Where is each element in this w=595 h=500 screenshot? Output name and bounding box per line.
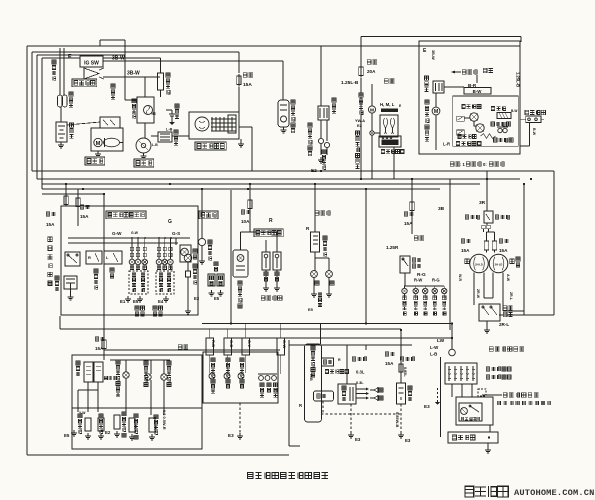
radiator fan motor label [308,123,312,127]
wire alternator charge feed [238,52,240,73]
wire AC switch drop [529,122,531,146]
alternator box [189,112,239,139]
hazard switch label [48,237,53,242]
svg-text:1.25L-B: 1.25L-B [516,72,521,87]
turn rails [68,237,190,239]
headlamp right [489,254,508,273]
reversing lamp ground [201,246,203,258]
relay ground [487,443,489,447]
svg-text:3B-W: 3B-W [127,71,140,77]
wire label box G-W [277,338,285,355]
svg-text:R: R [88,255,91,260]
air conditioner section box [419,41,520,154]
fuel solenoid ground [283,127,285,130]
AC control inner box [453,96,518,146]
wire blower drops [393,147,395,179]
wire label box R-B [206,338,214,355]
right turn lamp connectors [157,247,160,250]
logic levels note [450,162,454,166]
wire instruments rail [104,349,280,351]
starter motor box [91,128,123,151]
label 0.85L vertical [403,367,407,377]
wire radiator fan feeds [320,46,322,106]
left turn lamps [129,259,135,265]
clock label box [322,358,334,366]
wire mid rail 3 [42,188,440,190]
left turn indicator [238,373,244,379]
svg-text:2H-LD: 2H-LD [475,263,483,267]
wires headlamps to dimmer [473,272,475,305]
lighter label [400,357,404,361]
svg-text:2R-W: 2R-W [476,289,480,299]
accessory ground bus dashed [321,413,401,415]
fuse 15A turn hazard [46,212,50,216]
label small lamps [414,236,418,240]
wire coil to distributor [144,123,146,138]
wiper switch label [486,367,490,371]
condenser fan motor [432,107,440,115]
intermittent relay label box [448,432,498,443]
wire mid top rail [32,170,554,172]
wire blower feed vertical [360,37,362,66]
svg-text:1.25L-B: 1.25L-B [341,80,359,86]
label B-W ac switch [532,128,536,136]
AC switch box [526,116,541,122]
charge warning label [167,361,171,365]
oil warning label [144,361,148,365]
wire bottom frame [27,454,289,456]
svg-text:IG: IG [152,111,156,116]
brake lamp label [315,211,319,215]
svg-text:A-W: A-W [506,274,510,282]
door switch label [261,296,265,300]
svg-text:: 1: : 1 [460,162,466,167]
intermittent relay inner box [459,403,482,421]
right turn label [153,306,157,310]
relay inner label [461,417,464,420]
wire filter links [151,135,158,137]
svg-text:E2: E2 [311,168,317,173]
pressure switch label [491,122,495,126]
starter solenoid box [100,117,120,128]
wire 3B-W branch [103,76,158,78]
svg-text:R: R [269,218,273,224]
wire center main vertical bus [365,189,367,324]
blower switch box [379,136,401,147]
svg-text:B-W: B-W [511,109,517,113]
svg-text:E3: E3 [194,296,200,301]
headlight switch [465,215,469,219]
svg-text:M: M [370,107,374,113]
fusible link 1 [58,95,63,107]
fusible link 2 [63,95,68,107]
instrument cluster box [72,355,202,449]
fusible link label [69,92,73,96]
svg-text:G-V: G-V [247,340,252,347]
svg-text:0.3L: 0.3L [356,370,365,375]
room lamp label [238,281,242,285]
battery ground [60,142,62,145]
svg-text:R-B: R-B [309,374,313,381]
svg-text:R: R [338,358,341,362]
brake lamp grounds [313,277,315,291]
hazard switch [65,252,80,266]
voltage regulator [94,362,103,382]
radio label [352,357,356,361]
ignition coil label [132,99,136,103]
condenser fan motor label [425,100,429,104]
intermittent relay box [456,397,493,425]
reversing switch label [208,240,212,244]
svg-text:E3: E3 [355,437,361,442]
svg-text:0.3 0.5W-R: 0.3 0.5W-R [162,410,167,430]
dimmer switch label [503,306,507,310]
blower resistor unit [380,115,398,137]
wiper switch box [445,363,477,384]
indicator lamp box [203,352,278,403]
AC transistors [470,113,478,121]
svg-text:3B: 3B [438,206,445,212]
svg-text:B-W: B-W [473,89,483,94]
distributor label box [134,159,154,167]
speaker right [370,396,378,401]
svg-text:15A: 15A [461,248,470,253]
AC switch label [525,110,529,114]
wire W-Y vertical label [111,84,115,88]
wire label box G-B [224,338,232,355]
door lamp switch label box [254,229,283,237]
fusible link wires [59,48,61,95]
wire 0.85SW label [52,60,56,64]
wire ignition coil feed [158,76,160,78]
svg-text:E5: E5 [214,296,220,301]
distributor [136,138,151,153]
svg-text:G-S: G-S [172,231,180,236]
svg-text:L-B: L-B [166,128,173,132]
emergency label [94,269,98,273]
door switch front right [262,252,270,270]
headlight switch connectors [482,225,485,228]
alternator rotor [195,117,209,131]
brake switch label [323,236,327,240]
headlamp labels [465,259,470,264]
svg-text:R-W: R-W [414,278,422,283]
fuse 15A meter [95,337,99,341]
heater panel lamp [370,131,374,135]
svg-text:15A: 15A [46,222,55,227]
indicator ground drop [239,403,241,433]
wire brake feed [314,184,316,232]
ac amp top label [462,105,465,109]
blower switch label [381,149,385,153]
horn wire label boxes [208,274,215,286]
wire accessory column feed [320,324,322,345]
flasher ground [70,289,72,294]
svg-text:G-B: G-B [229,340,234,347]
wire label box G-V [242,338,250,355]
dimmer switch [479,304,500,321]
svg-text:AUTOHOME.COM.CN: AUTOHOME.COM.CN [514,488,594,498]
svg-text:15A: 15A [80,214,89,219]
filter box L-B [158,132,172,142]
wire fuel solenoid feed [239,60,283,62]
note arrow [482,394,502,396]
capacitor C [166,109,172,111]
solenoid valve coil [497,113,511,119]
wire lower rail 330 [60,328,401,330]
oil pressure warning lamp [145,374,151,380]
horn label [193,249,197,253]
fuse 20A heater [367,60,371,64]
svg-text:R-B: R-B [211,340,216,347]
right turn indicator [224,373,230,379]
ballast resistor [158,73,164,90]
label 0.85W-B vertical [395,412,400,427]
fuse 10A room [241,210,245,214]
watermark autohome logo [465,486,474,497]
charge warning lamp [161,374,167,380]
wire mid rail 2 [42,183,480,185]
clock display label [311,346,315,350]
temp resistor label [458,135,461,139]
label 0.3 0.5W-R vertical [162,410,167,430]
battery [56,122,67,142]
dimmer ground [486,321,488,327]
svg-text:G: G [168,219,172,225]
wire battery feed [60,107,62,122]
brake fluid warning label [116,360,120,364]
pressure switch [498,128,502,132]
turn signal section box [61,206,198,315]
svg-text:E2: E2 [357,123,363,128]
ignition switch IG SW box [80,56,103,67]
water temp sensor [85,418,91,431]
svg-text:2R-L: 2R-L [509,292,513,301]
thermistor label [493,138,497,142]
capacitor label [175,104,179,108]
svg-text:L-B: L-B [430,352,437,357]
label meters [178,345,182,349]
svg-text:R-G: R-G [432,278,440,283]
fuel gauge [76,361,80,365]
wire ignition feed segment [100,39,125,41]
svg-text:E5: E5 [308,307,314,312]
svg-text:M: M [434,109,439,115]
wire G-S drop [175,238,177,245]
fuse 15A accessory [385,352,389,356]
alternator label box [195,142,226,150]
svg-text:E5: E5 [133,299,139,304]
heater panel lamp label [355,131,359,135]
svg-text:20A: 20A [367,69,376,74]
label heater [384,79,388,84]
label 1.25L-B vertical right [516,72,521,87]
room lamp [233,250,248,277]
accessory display column box [305,344,322,422]
flasher label [55,276,59,280]
caption Xiali full-vehicle wiring diagram [248,472,253,478]
left turn label [135,306,139,310]
washer pump circle [449,349,456,356]
fuse 15A head left [461,239,465,243]
radio connector pins [356,388,366,390]
water temp sensor label [78,414,82,418]
wire battery to starter [67,122,100,125]
wire right inner vertical [523,184,525,315]
alternator rectifier marks [211,117,213,131]
svg-text:L-B: L-B [152,143,158,147]
svg-text:E3: E3 [424,404,430,409]
flasher [64,276,77,289]
filter label [174,130,178,134]
small lamps row [402,288,407,293]
svg-text:E: E [68,54,72,60]
fuse 15A charge [243,73,247,77]
svg-text:L-R: L-R [443,142,450,147]
starter motor [94,138,102,146]
wires headlamp feeds [486,223,488,225]
fusebox connector note [503,393,507,397]
turn label [110,268,114,272]
svg-text:0.85W-B: 0.85W-B [395,412,400,427]
starter ground [97,151,99,154]
ignition switch label box [72,79,97,87]
wire left nested vertical rail 4 [41,58,43,189]
gauge internal wires [87,382,89,412]
accessory wires [346,345,348,384]
svg-text:0:: 0: [483,162,487,167]
right turn indicator label [226,358,230,362]
wire left outer vertical rail [26,48,28,455]
temp gauge label [104,376,107,380]
blower motor [368,106,375,113]
right turn dashed box [156,271,174,294]
svg-text:G-W: G-W [112,231,122,236]
distributor ground [143,153,145,156]
svg-text:M: M [96,141,101,147]
svg-text:L-W: L-W [430,345,439,350]
light switch label [495,215,499,219]
wiper connector dashed [478,389,486,396]
wire lower rail 338 [231,337,452,339]
hazard relay box 1 [86,251,102,264]
ignition-on display label [325,370,328,374]
AC relay [433,81,444,93]
fuse 15A turn [80,205,84,209]
AC transistor rects [457,116,465,121]
svg-text:3B-W: 3B-W [112,56,125,62]
radiator fan relay [318,106,329,120]
headlamp left [470,254,489,273]
wire label R-B clock [309,374,313,381]
svg-text:1.25R: 1.25R [386,245,399,250]
wires room lamp top [240,232,242,250]
battery label [69,123,73,127]
svg-text:2H-LD: 2H-LD [495,263,503,267]
cigar lighter [397,383,406,404]
indicator wires [209,355,211,373]
brake lamp labels [315,281,319,285]
svg-text:10A: 10A [241,219,250,224]
small lamp switch [400,256,410,273]
reversing lamp [198,238,205,245]
svg-text:H, M, L: H, M, L [380,102,395,107]
clock box [314,391,334,401]
svg-text:Y-W: Y-W [79,411,86,415]
horn pair [180,245,191,262]
wire left nested vertical rail 3 [36,55,38,179]
compressor labels [455,71,461,73]
left turn lamp connectors [130,247,133,250]
wire top main rail B+ [27,45,520,47]
fuse 15A head right [499,239,503,243]
horn switch [186,271,191,277]
small lamp switch label [412,258,415,262]
headlamp fuse pair [484,241,488,250]
high beam indicator [209,373,215,379]
svg-text:E1: E1 [120,299,126,304]
washer wiper title [489,347,493,352]
panel illumination label [260,383,264,387]
svg-text:G-W: G-W [131,231,139,235]
ignition switch contact symbol [84,68,99,79]
wire alternator output [239,126,252,128]
fuel cutoff solenoid [278,100,289,127]
brake fluid warning lamp [123,372,129,378]
alternator ground [240,139,242,141]
lighter label vertical [408,386,412,390]
blower connector strip [381,109,398,112]
left turn dashed box [129,271,148,294]
wire mid section feed vertical [230,190,232,323]
horn switch label [193,264,197,268]
svg-text:E2: E2 [105,430,111,435]
wire left nested vertical rail 2 [31,52,33,171]
svg-text:15A: 15A [499,248,508,253]
hazard relay box 2 [104,251,122,264]
wire top rail 3 [37,54,125,56]
door switch grounds [265,270,267,285]
solenoid valve label [491,106,495,110]
wire instruments feed vertical [103,194,105,355]
svg-text:E3: E3 [405,438,411,443]
wire headlamp section left frame [449,179,451,330]
wire right section vertical [553,171,555,315]
AC relay label [424,76,428,80]
right turn lamps [156,259,162,265]
wire dimmer to right rail [499,314,554,316]
wire AC feed rail [361,36,521,38]
radio box [338,384,356,404]
panel illumination lamps [259,376,264,381]
svg-text:3B-W: 3B-W [431,50,435,60]
high beam indicator label [211,358,215,362]
radiator thermo switch [318,138,323,143]
wire top rail 2 [32,51,239,53]
svg-text:15A: 15A [385,361,394,366]
svg-text:0.85L: 0.85L [403,367,407,377]
fuse 15A small lamps [404,212,408,216]
svg-text:0.3L: 0.3L [356,381,364,385]
svg-text:IG SW: IG SW [84,60,99,66]
wiper motor wires [451,384,453,397]
wire compressor feed [444,86,464,88]
fuel cutoff solenoid label [291,100,295,104]
door switch front left [273,252,281,270]
small lamp bus [404,273,406,286]
junction dots on mid rails [65,183,67,185]
turn flasher switch label box [106,211,146,219]
